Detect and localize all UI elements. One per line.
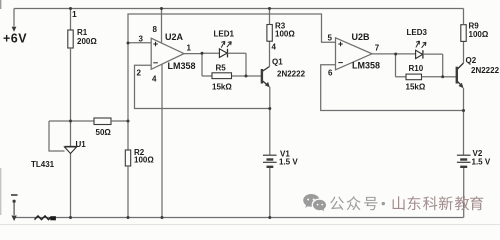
svg-text:2: 2 xyxy=(137,69,142,78)
svg-text:R10: R10 xyxy=(409,64,424,73)
svg-text:R5: R5 xyxy=(216,64,227,73)
svg-text:2N2222: 2N2222 xyxy=(277,70,306,79)
svg-text:1.5 V: 1.5 V xyxy=(279,158,298,167)
svg-text:15kΩ: 15kΩ xyxy=(406,83,426,92)
svg-text:50Ω: 50Ω xyxy=(96,128,112,137)
svg-text:7: 7 xyxy=(375,44,380,53)
svg-text:1: 1 xyxy=(72,9,77,19)
svg-text:+6V: +6V xyxy=(3,31,27,45)
svg-text:100Ω: 100Ω xyxy=(275,30,295,39)
svg-text:4: 4 xyxy=(152,75,157,84)
svg-text:100Ω: 100Ω xyxy=(134,156,154,165)
svg-text:2N2222: 2N2222 xyxy=(471,66,500,75)
svg-text:U2B: U2B xyxy=(352,32,371,42)
svg-text:6: 6 xyxy=(328,68,333,77)
svg-text:Q1: Q1 xyxy=(272,58,283,67)
svg-text:15kΩ: 15kΩ xyxy=(212,83,232,92)
svg-text:Q2: Q2 xyxy=(466,56,477,65)
svg-text:R1: R1 xyxy=(77,28,88,37)
svg-text:8: 8 xyxy=(153,25,158,34)
svg-text:LM358: LM358 xyxy=(168,61,196,71)
svg-text:LED3: LED3 xyxy=(407,28,428,37)
svg-text:4: 4 xyxy=(272,43,277,52)
svg-text:5: 5 xyxy=(328,33,333,42)
svg-text:LM358: LM358 xyxy=(352,61,380,71)
svg-text:U1: U1 xyxy=(76,140,87,149)
svg-text:U2A: U2A xyxy=(165,32,184,42)
svg-text:LED1: LED1 xyxy=(214,30,235,39)
svg-text:200Ω: 200Ω xyxy=(77,37,97,46)
svg-text:100Ω: 100Ω xyxy=(469,30,489,39)
svg-text:TL431: TL431 xyxy=(31,160,55,169)
svg-text:1: 1 xyxy=(187,44,192,53)
svg-text:3: 3 xyxy=(139,35,144,44)
svg-text:1.5 V: 1.5 V xyxy=(472,158,491,167)
